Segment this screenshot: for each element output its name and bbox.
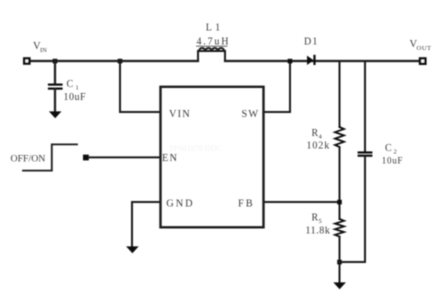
label R5 — [312, 213, 322, 226]
svg-text:EN: EN — [162, 153, 178, 164]
wire EN — [89, 156, 160, 158]
label OFF/ON — [11, 154, 46, 165]
node junction C1 — [53, 59, 58, 64]
node junction SW-rail — [288, 59, 293, 64]
IC U1 — [161, 87, 264, 228]
svg-text:GND: GND — [166, 199, 194, 210]
svg-text:2: 2 — [394, 149, 397, 156]
svg-text:IN: IN — [40, 47, 47, 54]
node EN pad — [83, 155, 89, 161]
svg-text:11.8k: 11.8k — [306, 226, 331, 237]
pin GND — [166, 199, 194, 210]
wire C1 to ground — [54, 89, 56, 113]
resistor R5 — [335, 219, 344, 237]
terminal VOUT — [420, 58, 425, 63]
svg-text:OFF/ON: OFF/ON — [11, 154, 46, 165]
diode D1 — [307, 55, 316, 65]
value faint internal part number — [169, 144, 222, 153]
wire R4 to FB node — [339, 147, 341, 219]
step waveform symbol — [23, 144, 77, 170]
inductor L1 — [198, 48, 225, 61]
value 11.8k — [306, 226, 331, 237]
node junction bottom — [337, 260, 342, 265]
wire C1 drop — [54, 61, 56, 84]
ground (IC GND) — [126, 246, 139, 253]
value 102k — [307, 141, 331, 152]
wire R5 to bottom node — [339, 237, 341, 283]
svg-text:FB: FB — [238, 199, 255, 210]
value 10uF — [64, 92, 87, 103]
pin VIN — [169, 109, 191, 120]
pin SW — [242, 109, 260, 120]
svg-text:D1: D1 — [304, 37, 319, 48]
resistor R4 — [335, 127, 344, 147]
svg-text:102k: 102k — [307, 141, 331, 152]
svg-text:C: C — [385, 143, 392, 154]
wire top rail right segment — [225, 60, 420, 62]
wire rail to C2 — [364, 61, 366, 152]
svg-text:10uF: 10uF — [64, 92, 87, 103]
svg-text:L1: L1 — [206, 23, 224, 34]
value 10uF (C2) — [382, 156, 403, 166]
node junction VIN-pin — [118, 59, 123, 64]
wire GND pin — [132, 202, 160, 248]
label D1 — [304, 37, 319, 48]
svg-text:OUT: OUT — [417, 45, 432, 52]
wire FB — [264, 201, 340, 203]
label VIN — [33, 41, 47, 54]
wire SW link — [264, 61, 290, 112]
wire top rail left segment — [29, 60, 198, 62]
pin FB — [238, 199, 255, 210]
svg-text:SW: SW — [242, 109, 260, 120]
svg-text:TPS61070 DDC: TPS61070 DDC — [169, 144, 222, 153]
node junction FB — [337, 200, 342, 205]
label C2 — [385, 143, 397, 156]
svg-text:5: 5 — [319, 218, 322, 225]
label R4 — [312, 128, 323, 141]
svg-text:R: R — [312, 213, 319, 224]
svg-text:C: C — [67, 79, 74, 90]
svg-text:10uF: 10uF — [382, 156, 403, 166]
svg-text:R: R — [312, 128, 319, 139]
label C1 — [67, 79, 79, 92]
svg-text:VIN: VIN — [169, 109, 191, 120]
pin EN — [162, 153, 178, 164]
svg-text:1: 1 — [76, 85, 79, 92]
terminal VIN — [24, 58, 29, 63]
label VOUT — [410, 39, 432, 52]
wire VIN pin connection — [120, 61, 160, 112]
label L1 — [206, 23, 224, 34]
wire rail to R4 — [339, 61, 341, 127]
capacitor C1 — [49, 85, 62, 89]
ground (output) — [333, 282, 346, 289]
capacitor C2 — [359, 153, 372, 156]
wire C2 to bottom — [340, 156, 366, 262]
ground (C1) — [49, 111, 62, 118]
value 4.7uH — [197, 37, 231, 48]
